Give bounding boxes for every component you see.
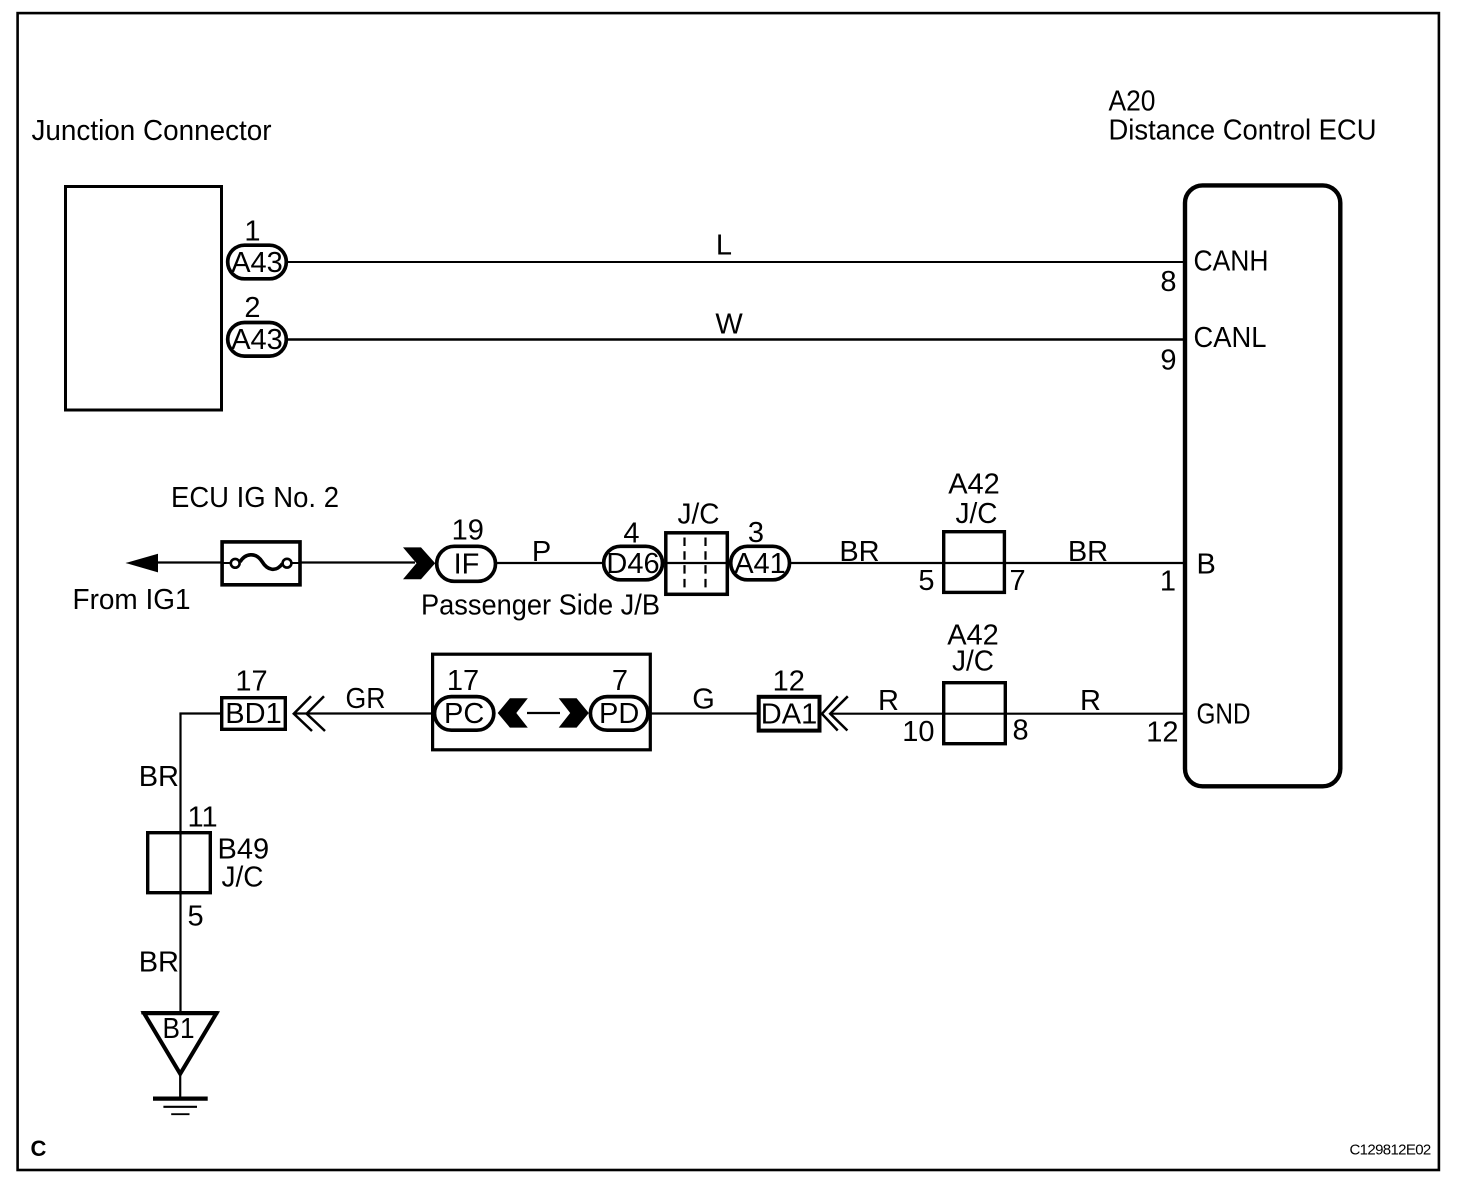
- connector IF: [437, 546, 496, 581]
- junction connector A42 upper: [943, 469, 1007, 593]
- wire L (CANH): [288, 230, 1185, 263]
- svg-text:C: C: [31, 1136, 47, 1161]
- svg-text:11: 11: [188, 802, 218, 834]
- svg-text:12: 12: [773, 666, 805, 698]
- svg-text:R: R: [1080, 685, 1101, 717]
- shield chevrons at DA1: [822, 696, 848, 730]
- svg-text:2: 2: [244, 292, 260, 324]
- svg-text:D46: D46: [606, 548, 659, 580]
- svg-text:17: 17: [235, 666, 267, 698]
- svg-text:5: 5: [188, 901, 204, 933]
- connector PD: [590, 697, 648, 731]
- connector D46: [604, 546, 663, 580]
- svg-text:From IG1: From IG1: [73, 584, 191, 616]
- svg-text:G: G: [692, 684, 715, 716]
- svg-text:BR: BR: [839, 536, 879, 568]
- svg-text:A41: A41: [734, 548, 786, 580]
- svg-text:7: 7: [612, 665, 628, 697]
- svg-text:1: 1: [1160, 566, 1176, 598]
- svg-text:A43: A43: [231, 324, 283, 356]
- ECU A20 box: [1185, 185, 1340, 786]
- connector A41: [731, 546, 790, 580]
- svg-text:12: 12: [1146, 717, 1178, 749]
- svg-text:ECU IG No. 2: ECU IG No. 2: [171, 482, 339, 514]
- svg-text:A20: A20: [1109, 86, 1156, 118]
- svg-text:B: B: [1197, 549, 1216, 581]
- arrow to IG1: [126, 554, 159, 573]
- svg-text:J/C: J/C: [222, 862, 264, 894]
- wire P: [497, 536, 603, 568]
- connector DA1: [759, 697, 820, 731]
- wire GR: [294, 683, 436, 715]
- svg-text:9: 9: [1160, 345, 1176, 377]
- svg-text:PC: PC: [444, 698, 484, 730]
- wire R (A42 to ECU): [1007, 685, 1185, 717]
- splice arrow: [403, 547, 435, 579]
- connector BD1: [222, 698, 286, 730]
- fuse ECU IG No. 2: [222, 542, 300, 585]
- wire triangle to ground: [179, 1073, 181, 1097]
- svg-text:CANH: CANH: [1194, 246, 1269, 278]
- splice arrow right: [559, 698, 589, 727]
- wire W (CANL): [288, 309, 1185, 341]
- svg-text:L: L: [716, 230, 732, 262]
- svg-text:B1: B1: [163, 1013, 195, 1045]
- svg-text:Junction Connector: Junction Connector: [32, 115, 272, 147]
- svg-text:C129812E02: C129812E02: [1350, 1142, 1431, 1159]
- svg-text:5: 5: [918, 565, 934, 597]
- splice arrow left: [498, 698, 528, 727]
- label A20 Distance Control ECU: [1109, 86, 1377, 147]
- wire between splice arrows: [527, 712, 560, 714]
- svg-text:J/C: J/C: [956, 498, 998, 530]
- svg-text:PD: PD: [599, 698, 639, 730]
- svg-text:BR: BR: [139, 947, 179, 979]
- svg-text:A43: A43: [231, 247, 283, 279]
- svg-text:BR: BR: [1068, 536, 1108, 568]
- svg-text:J/C: J/C: [952, 646, 994, 678]
- ground symbol: [153, 1099, 208, 1115]
- svg-text:8: 8: [1013, 715, 1029, 747]
- svg-text:W: W: [715, 309, 743, 341]
- svg-text:BR: BR: [139, 761, 179, 793]
- wire BR (A42 to ECU): [1007, 536, 1185, 568]
- svg-text:Distance Control ECU: Distance Control ECU: [1109, 115, 1377, 147]
- svg-text:1: 1: [244, 216, 260, 248]
- wire BR corner (to BD1): [179, 712, 221, 714]
- svg-text:10: 10: [902, 716, 934, 748]
- connector PC: [435, 697, 494, 731]
- junction connector B49: [148, 833, 269, 894]
- wire G: [650, 684, 758, 716]
- svg-text:A42: A42: [948, 469, 1000, 501]
- wire BR (A41 to A42): [791, 536, 943, 568]
- svg-text:Passenger Side J/B: Passenger Side J/B: [421, 590, 660, 622]
- svg-text:DA1: DA1: [761, 699, 817, 731]
- svg-text:CANL: CANL: [1194, 322, 1267, 354]
- wire through J/C: [664, 562, 729, 564]
- passenger side J/B box: [433, 654, 651, 750]
- wire BR vertical (BD1 to B49): [139, 714, 181, 1013]
- svg-text:17: 17: [447, 665, 479, 697]
- wire R (DA1 to A42): [830, 685, 943, 717]
- wire IG1 to fuse: [155, 561, 222, 563]
- svg-text:3: 3: [748, 517, 764, 549]
- junction connector A42 lower: [943, 620, 1007, 744]
- svg-text:BD1: BD1: [225, 698, 281, 730]
- svg-text:IF: IF: [454, 549, 480, 581]
- svg-text:8: 8: [1160, 266, 1176, 298]
- ground triangle B1: [141, 1013, 218, 1074]
- connector A43 pin 2: [228, 323, 287, 357]
- svg-text:19: 19: [452, 515, 484, 547]
- junction connector box: [66, 187, 222, 411]
- svg-text:J/C: J/C: [678, 499, 720, 531]
- svg-text:GR: GR: [346, 683, 386, 715]
- wire fuse to IF: [302, 561, 416, 563]
- connector A43 pin 1: [228, 245, 287, 279]
- svg-text:P: P: [532, 536, 551, 568]
- svg-text:7: 7: [1010, 565, 1026, 597]
- svg-text:R: R: [878, 685, 899, 717]
- svg-text:GND: GND: [1197, 699, 1251, 731]
- junction connector J/C (passenger side): [666, 499, 728, 595]
- shield chevrons at BD1: [294, 696, 325, 731]
